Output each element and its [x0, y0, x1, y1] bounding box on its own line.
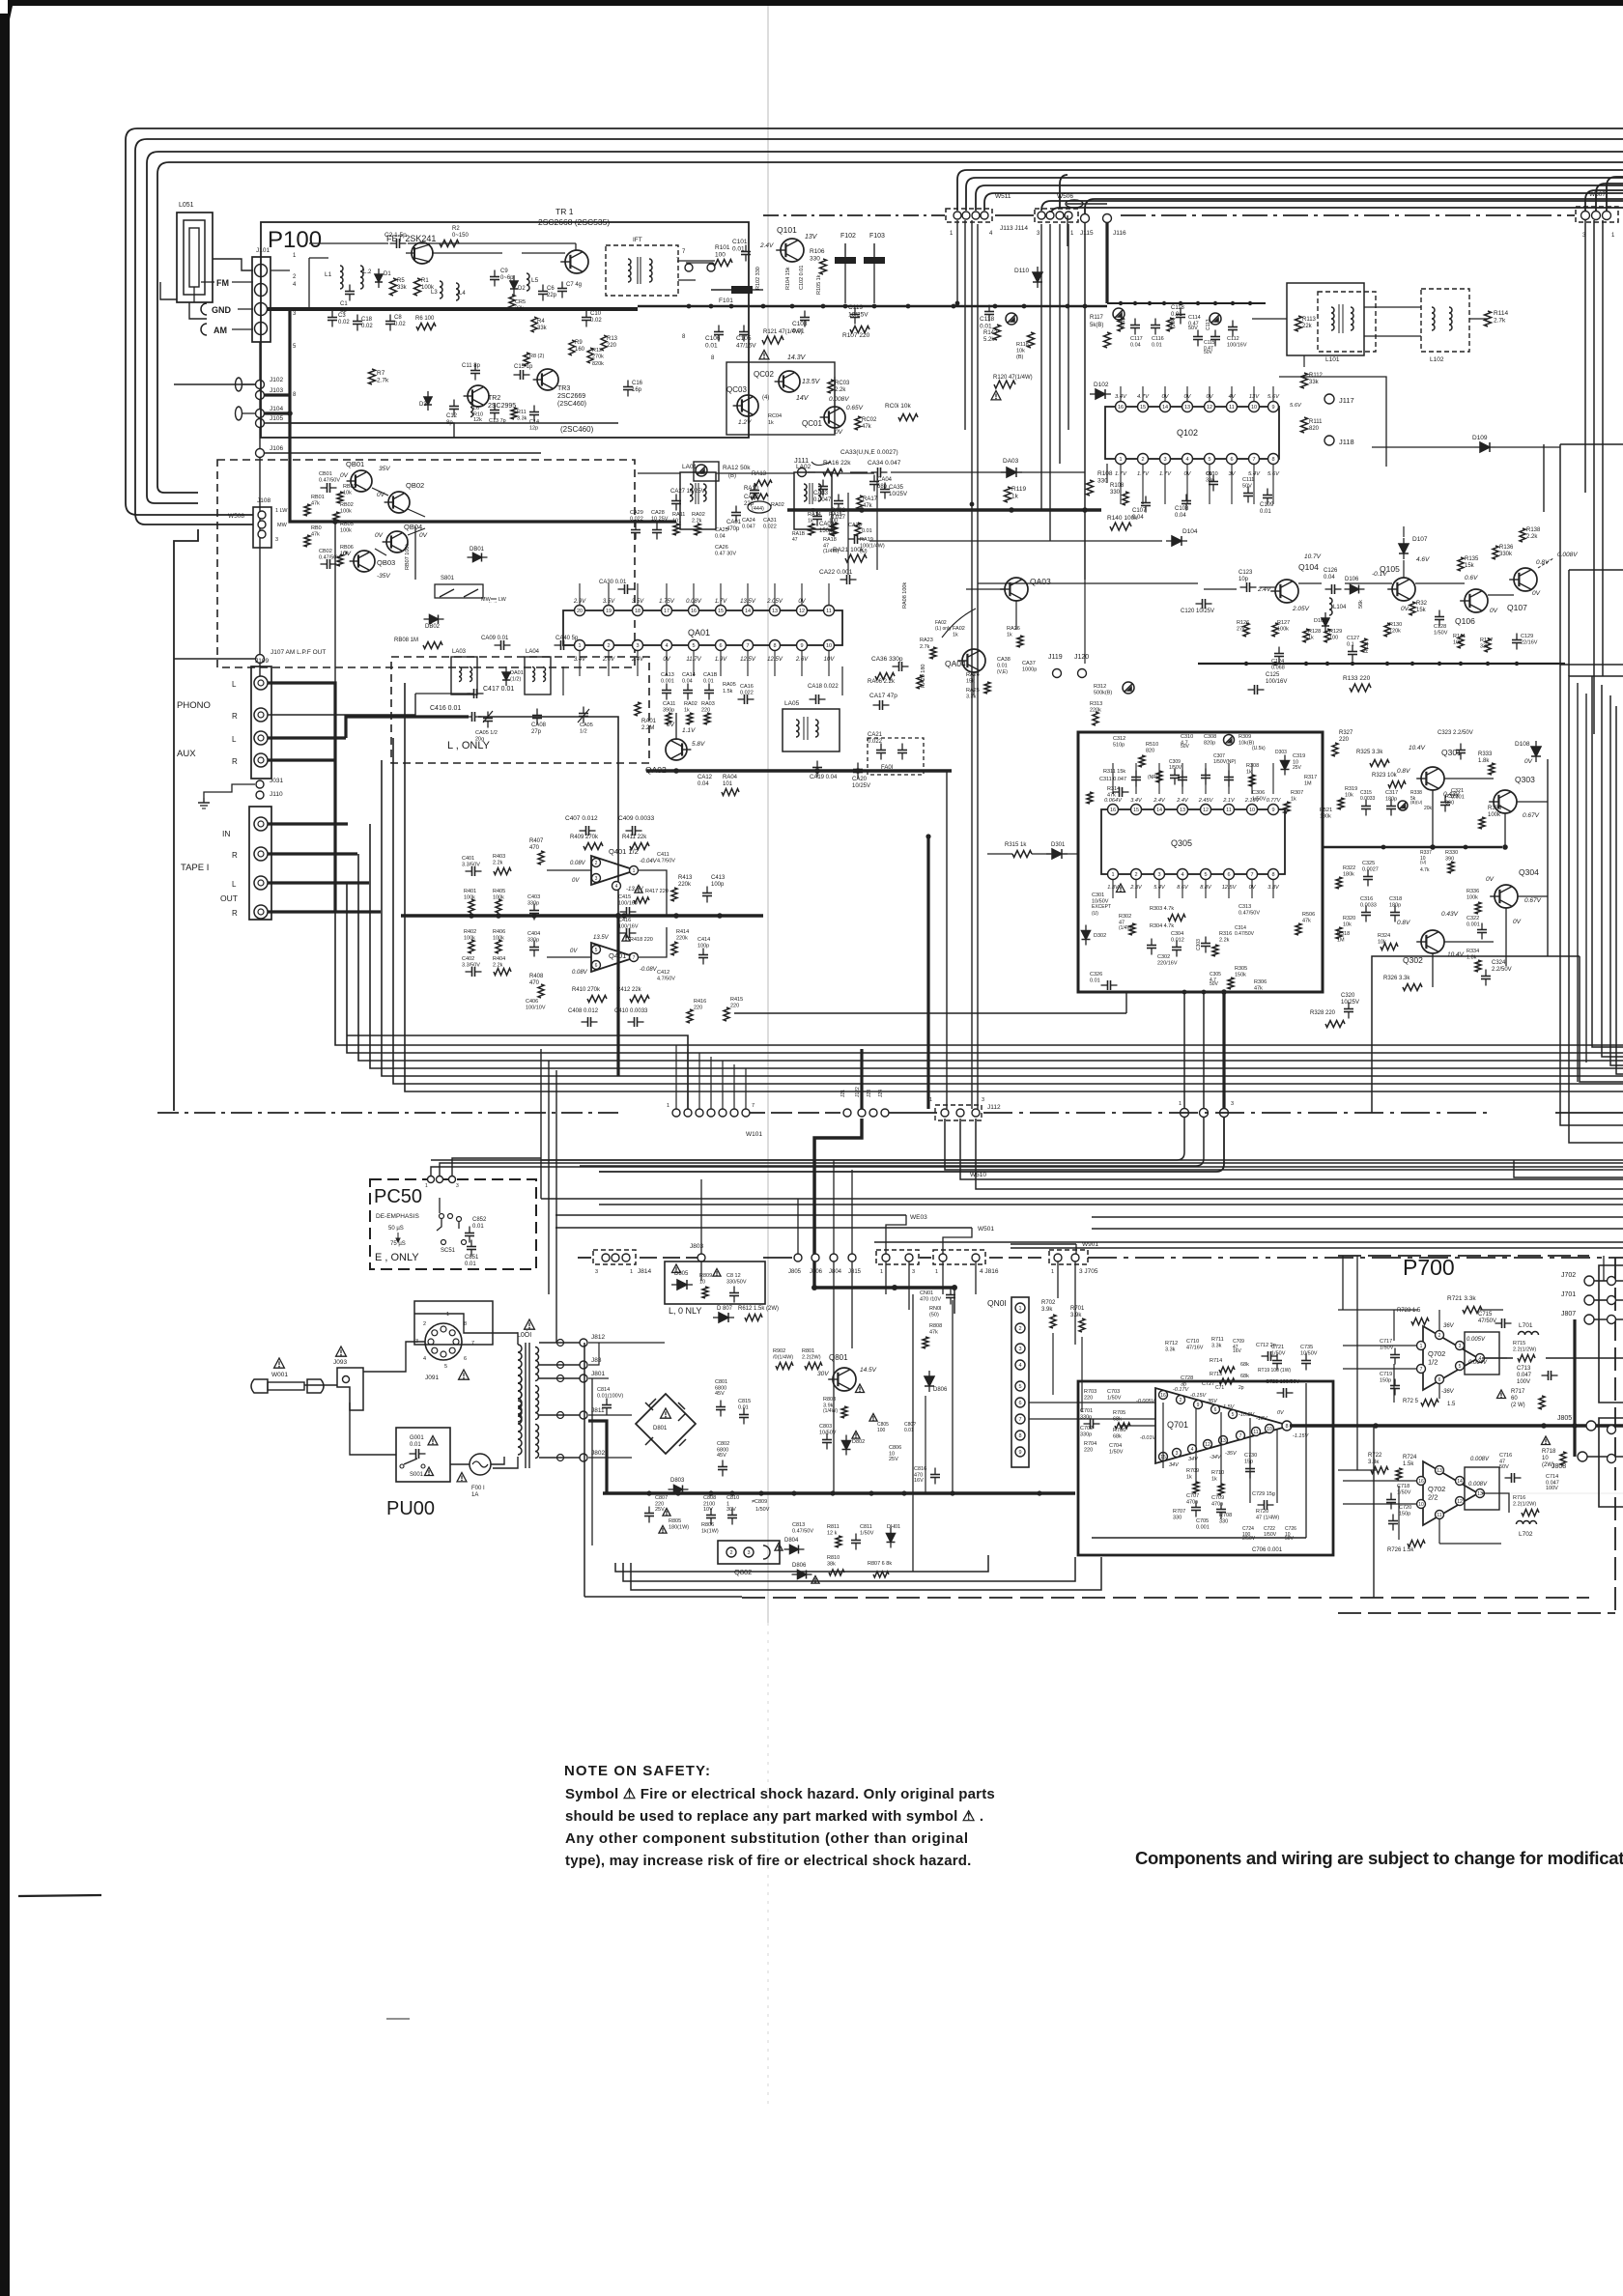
- resistor RA06 2.2k: [875, 673, 895, 680]
- svg-text:R810: R810: [827, 1555, 840, 1561]
- resistor R8: [524, 353, 529, 366]
- wire right edge drops: [1585, 190, 1623, 212]
- connector J116: [1103, 214, 1112, 223]
- svg-text:100: 100: [877, 1428, 886, 1433]
- svg-text:330: 330: [1110, 490, 1121, 496]
- svg-text:56k: 56k: [1358, 600, 1364, 609]
- svg-text:R106: R106: [810, 248, 825, 255]
- svg-text:100k: 100k: [1277, 627, 1289, 633]
- svg-text:C301: C301: [1092, 893, 1104, 898]
- capacitor row Q305 top: [1131, 777, 1141, 779]
- svg-text:QA01: QA01: [688, 628, 710, 638]
- svg-text:10.7V: 10.7V: [1304, 553, 1322, 560]
- svg-text:J104: J104: [270, 406, 283, 412]
- capacitor C18 0.02: [353, 321, 362, 323]
- op-amp Q401 1/2: [591, 856, 636, 885]
- inductor LA01: [680, 472, 716, 529]
- wire long line under dash: [431, 1159, 1623, 1161]
- dashed P700 bottom: [1338, 1612, 1615, 1614]
- svg-text:R137: R137: [1480, 638, 1493, 643]
- svg-text:Q104: Q104: [1298, 562, 1319, 572]
- diode D804: [790, 1545, 799, 1554]
- svg-text:0V: 0V: [377, 492, 385, 498]
- svg-text:SC51: SC51: [441, 1248, 456, 1254]
- svg-text:100/16V: 100/16V: [618, 901, 639, 907]
- svg-text:R121 47(1/4W): R121 47(1/4W): [763, 329, 803, 335]
- svg-text:C11 8p: C11 8p: [462, 363, 481, 369]
- svg-text:11: 11: [1437, 1513, 1441, 1518]
- block PC50 dashed box: [370, 1179, 536, 1269]
- svg-text:C416 0.01: C416 0.01: [430, 705, 461, 712]
- transistor Q106: [1465, 589, 1488, 612]
- svg-text:J119: J119: [1048, 654, 1063, 661]
- svg-text:QB01: QB01: [346, 460, 364, 468]
- svg-text:13: 13: [772, 609, 778, 614]
- svg-text:0V: 0V: [667, 722, 675, 728]
- capacitor C106 0.01: [714, 331, 724, 333]
- connector J101: [252, 257, 270, 342]
- svg-text:50V: 50V: [1181, 744, 1190, 750]
- resistor R135 15k: [1458, 557, 1464, 571]
- capacitor CA30 0.01: [624, 584, 626, 594]
- svg-text:14: 14: [1162, 405, 1168, 411]
- svg-text:C15 1p: C15 1p: [514, 364, 533, 370]
- resistor R140 100k: [1110, 523, 1131, 530]
- svg-text:47/50V: 47/50V: [1478, 1318, 1496, 1324]
- svg-text:10k: 10k: [343, 491, 352, 496]
- L ONLY box power: [665, 1261, 765, 1304]
- svg-text:R112: R112: [1309, 373, 1324, 379]
- svg-text:C2 1.5p: C2 1.5p: [384, 232, 407, 239]
- svg-text:C9: C9: [500, 269, 508, 274]
- connector QN01: [1011, 1297, 1029, 1467]
- capacitor C108 0.04: [1182, 500, 1191, 502]
- svg-text:0.01: 0.01: [997, 664, 1008, 669]
- svg-text:R324: R324: [1378, 933, 1390, 939]
- wire QB thick rail: [290, 413, 335, 522]
- svg-text:1/50V: 1/50V: [1109, 1450, 1124, 1456]
- wire tuner out rail: [638, 305, 1107, 308]
- svg-text:J23: J23: [867, 1090, 872, 1097]
- svg-text:IN: IN: [222, 829, 231, 838]
- svg-text:34V: 34V: [1169, 1462, 1180, 1468]
- svg-text:R4: R4: [537, 319, 545, 325]
- resistor R126 27k: [1243, 623, 1249, 637]
- svg-text:1: 1: [578, 643, 581, 649]
- transistor TR3: [537, 369, 558, 390]
- svg-text:3: 3: [275, 537, 278, 543]
- svg-text:R142: R142: [983, 330, 998, 336]
- svg-text:4.7V: 4.7V: [1137, 394, 1150, 400]
- svg-text:R130: R130: [1389, 622, 1402, 628]
- wire frame outer 2: [135, 139, 1623, 513]
- svg-text:3: 3: [1157, 872, 1160, 878]
- svg-text:100/10V: 100/10V: [526, 1006, 546, 1011]
- svg-text:-36V: -36V: [1441, 1389, 1455, 1395]
- svg-text:10.4V: 10.4V: [1409, 745, 1426, 751]
- svg-text:CA02: CA02: [744, 495, 759, 500]
- svg-text:RA13: RA13: [752, 471, 767, 477]
- svg-text:7: 7: [1420, 1367, 1423, 1373]
- svg-text:16: 16: [1418, 1479, 1424, 1485]
- svg-text:1k(1W): 1k(1W): [701, 1529, 719, 1535]
- svg-text:R1: R1: [421, 278, 429, 284]
- svg-text:RA26: RA26: [1007, 626, 1020, 632]
- svg-text:R706: R706: [1113, 1428, 1125, 1433]
- svg-text:J093: J093: [333, 1359, 347, 1366]
- svg-text:0.01: 0.01: [1090, 978, 1100, 984]
- resistor RA21 100k: [845, 554, 867, 562]
- svg-text:C113: C113: [1206, 319, 1211, 330]
- svg-text:1k: 1k: [1246, 770, 1252, 776]
- svg-text:820: 820: [1146, 749, 1154, 754]
- svg-text:1.5k: 1.5k: [1403, 1461, 1414, 1467]
- svg-text:RA14: RA14: [808, 512, 821, 518]
- svg-text:1.5V: 1.5V: [1223, 1404, 1236, 1410]
- svg-text:R417 220: R417 220: [645, 889, 669, 894]
- transistor Q301: [1421, 767, 1444, 790]
- wire J115 drop: [1084, 223, 1086, 580]
- svg-text:4: 4: [615, 884, 618, 890]
- svg-text:RA15: RA15: [829, 512, 842, 518]
- block Q701 box: [1078, 1381, 1333, 1555]
- svg-text:R308: R308: [1246, 763, 1259, 769]
- svg-text:3: 3: [1176, 1451, 1179, 1457]
- svg-text:0.001: 0.001: [661, 679, 674, 685]
- connector J801: [580, 1375, 587, 1382]
- op-amp Q702 2/2: [1423, 1461, 1478, 1525]
- svg-text:CA38: CA38: [997, 657, 1011, 663]
- svg-text:14.5V: 14.5V: [860, 1367, 877, 1374]
- op-amp Q401 2/2: [591, 943, 636, 972]
- svg-text:≠C809: ≠C809: [752, 1499, 767, 1505]
- svg-text:0.08V: 0.08V: [686, 599, 702, 605]
- svg-text:R711: R711: [1211, 1337, 1224, 1343]
- svg-text:220: 220: [1339, 737, 1350, 743]
- svg-text:13: 13: [1184, 405, 1190, 411]
- svg-text:C810: C810: [726, 1495, 739, 1501]
- wire left bundle drop: [540, 1049, 542, 1199]
- resistor R132 15k: [1409, 602, 1415, 615]
- svg-text:22/16V: 22/16V: [1521, 640, 1538, 646]
- svg-text:R105 1k: R105 1k: [816, 274, 822, 295]
- wire bus stair 3: [358, 854, 1623, 1061]
- connector J805 J806 J804 J815: [794, 1254, 802, 1261]
- svg-text:9: 9: [1018, 1450, 1021, 1456]
- svg-text:0.01: 0.01: [410, 1442, 421, 1448]
- svg-text:1.7V: 1.7V: [1159, 471, 1172, 477]
- svg-text:15: 15: [1140, 405, 1146, 411]
- svg-text:C713: C713: [1517, 1366, 1531, 1372]
- capacitor CA40 5p: [560, 640, 562, 650]
- svg-text:3.9k: 3.9k: [1070, 1313, 1082, 1318]
- svg-text:C304: C304: [1171, 931, 1183, 937]
- svg-text:R713: R713: [1210, 1372, 1222, 1377]
- svg-text:L.2: L.2: [363, 269, 372, 275]
- wire J8xx connector downfeeds: [700, 1261, 702, 1281]
- svg-text:(L) only: (L) only: [935, 626, 952, 632]
- wire Q401 output thick drop: [616, 916, 619, 1076]
- svg-text:15: 15: [1133, 808, 1139, 813]
- wire Q305 bottom drops to J1xx pins: [1183, 992, 1185, 1109]
- svg-text:0V: 0V: [375, 532, 384, 539]
- svg-text:330k: 330k: [1499, 552, 1513, 557]
- svg-text:0.6V: 0.6V: [1465, 575, 1478, 581]
- capacitor CA20 10/25: [853, 769, 863, 771]
- transistor Q302: [1421, 930, 1444, 953]
- svg-text:4: 4: [423, 1356, 426, 1362]
- svg-text:J812: J812: [591, 1334, 605, 1341]
- IFT transformer: [606, 245, 678, 296]
- svg-text:820p: 820p: [1204, 741, 1215, 747]
- resistor R114 2.7k: [1485, 311, 1492, 326]
- svg-text:C318: C318: [1389, 896, 1402, 902]
- svg-text:C316: C316: [1360, 896, 1373, 902]
- transistor Q303: [1494, 790, 1517, 813]
- svg-text:1: 1: [1420, 1344, 1423, 1349]
- svg-text:DA03: DA03: [1003, 458, 1019, 465]
- svg-text:J24: J24: [878, 1090, 884, 1097]
- svg-text:1.7V: 1.7V: [1115, 471, 1127, 477]
- dashed frame P700: [1338, 1255, 1589, 1257]
- wire drop J115 loop: [1060, 175, 1068, 208]
- svg-text:C317: C317: [1385, 790, 1398, 796]
- svg-text:J806: J806: [810, 1269, 823, 1275]
- svg-text:0.008V: 0.008V: [1468, 1482, 1488, 1488]
- svg-text:7: 7: [746, 643, 749, 649]
- svg-text:100p: 100p: [711, 882, 725, 888]
- svg-text:10/25V: 10/25V: [889, 492, 907, 497]
- svg-text:1: 1: [1119, 457, 1122, 463]
- svg-text:120k: 120k: [1389, 629, 1401, 635]
- capacitor C416: [471, 712, 473, 722]
- svg-text:R11: R11: [517, 410, 527, 415]
- svg-text:1/2: 1/2: [580, 729, 587, 735]
- capacitor CA05b: [579, 713, 588, 715]
- svg-text:0.01: 0.01: [465, 1261, 476, 1267]
- svg-text:14: 14: [1457, 1479, 1463, 1485]
- wire bus top F: [1050, 208, 1623, 217]
- svg-text:C814: C814: [597, 1387, 610, 1393]
- svg-text:R316: R316: [1219, 931, 1232, 937]
- svg-text:0.04: 0.04: [1324, 575, 1335, 581]
- svg-text:DE-EMPHASIS: DE-EMPHASIS: [376, 1213, 419, 1220]
- svg-text:CB02: CB02: [319, 549, 332, 554]
- svg-text:R506: R506: [1302, 912, 1315, 918]
- svg-text:4: 4: [989, 231, 993, 237]
- svg-text:L104: L104: [1333, 605, 1347, 610]
- svg-text:7: 7: [471, 1341, 474, 1346]
- svg-text:D806: D806: [933, 1387, 948, 1393]
- wire bus top C: [976, 185, 1623, 211]
- svg-text:0.02: 0.02: [394, 322, 406, 327]
- svg-text:C727: C727: [1202, 1381, 1214, 1387]
- svg-text:0.67V: 0.67V: [1524, 897, 1542, 904]
- svg-text:D102: D102: [1094, 382, 1109, 388]
- wire aux feed: [346, 717, 469, 738]
- svg-text:0V: 0V: [1183, 471, 1191, 477]
- svg-text:10/25V: 10/25V: [852, 783, 870, 789]
- svg-text:C706 0.001: C706 0.001: [1252, 1547, 1283, 1553]
- svg-text:0.08V: 0.08V: [570, 861, 586, 866]
- svg-text:R141: R141: [1453, 634, 1466, 639]
- svg-text:10: 10: [826, 643, 832, 649]
- svg-text:1/50V: 1/50V: [755, 1507, 770, 1513]
- svg-text:5: 5: [1459, 1364, 1462, 1370]
- connector J816: [933, 1250, 985, 1264]
- svg-text:R107 220: R107 220: [842, 332, 870, 339]
- svg-text:0.0047: 0.0047: [813, 497, 832, 503]
- svg-text:CA05: CA05: [580, 723, 593, 728]
- svg-text:4V: 4V: [1228, 394, 1236, 400]
- svg-text:2/2: 2/2: [1428, 1493, 1438, 1502]
- capacitor CA17 47p: [879, 700, 881, 710]
- svg-text:R133 220: R133 220: [1343, 675, 1371, 682]
- svg-text:R413: R413: [678, 875, 693, 881]
- svg-text:390: 390: [1445, 857, 1454, 863]
- svg-text:14: 14: [1156, 808, 1162, 813]
- svg-text:5: 5: [1232, 1412, 1235, 1418]
- svg-text:D3: D3: [419, 402, 427, 408]
- svg-text:(2 W): (2 W): [1511, 1403, 1525, 1408]
- diode D2: [510, 281, 518, 289]
- svg-text:5.6V: 5.6V: [1267, 394, 1280, 400]
- svg-text:Any other component substit: Any other component substitution (other …: [565, 1830, 969, 1847]
- svg-text:J122: J122: [855, 1087, 861, 1097]
- svg-text:R113: R113: [1302, 317, 1317, 323]
- svg-text:C18: C18: [361, 317, 373, 323]
- resistor R718 10 2W: [1542, 1436, 1551, 1445]
- svg-text:0V: 0V: [798, 599, 806, 605]
- svg-text:(4): (4): [762, 395, 769, 401]
- svg-text:13: 13: [1180, 808, 1185, 813]
- svg-text:IFT: IFT: [633, 237, 642, 243]
- svg-text:2.2(1/2W): 2.2(1/2W): [1513, 1502, 1536, 1508]
- svg-text:R803: R803: [823, 1397, 836, 1403]
- svg-text:4: 4: [1191, 1447, 1194, 1453]
- svg-text:R510: R510: [1146, 742, 1158, 748]
- svg-text:0.01: 0.01: [862, 528, 872, 534]
- svg-text:8: 8: [1271, 457, 1274, 463]
- svg-text:QN0I: QN0I: [987, 1298, 1007, 1308]
- svg-text:C714: C714: [1546, 1474, 1558, 1480]
- svg-text:D105: D105: [1314, 618, 1326, 624]
- resistor R129 100: [1324, 629, 1330, 642]
- wire Q702a output: [1485, 1357, 1513, 1359]
- svg-text:CA24: CA24: [742, 518, 755, 524]
- svg-text:3: 3: [1018, 1346, 1021, 1352]
- svg-text:R702: R702: [1041, 1300, 1056, 1306]
- svg-text:J805: J805: [1557, 1415, 1572, 1422]
- svg-text:R612 1.5k (2W): R612 1.5k (2W): [738, 1306, 779, 1312]
- transistor Q801: [833, 1368, 856, 1391]
- svg-text:W001: W001: [271, 1372, 288, 1378]
- wire frame outer 4: [157, 162, 1623, 486]
- svg-text:RB08 1M: RB08 1M: [394, 638, 418, 643]
- capacitor C7 4p: [557, 288, 567, 290]
- capacitor C1 6p: [345, 291, 355, 293]
- transistor Q802 box: [718, 1541, 780, 1564]
- svg-text:R807 6 8k: R807 6 8k: [868, 1561, 892, 1567]
- svg-text:CA28: CA28: [651, 510, 665, 516]
- svg-text:33k: 33k: [515, 306, 524, 312]
- svg-text:C118: C118: [980, 316, 994, 323]
- svg-text:5.8V: 5.8V: [692, 741, 705, 748]
- svg-text:-0.17V: -0.17V: [1173, 1387, 1190, 1393]
- svg-text:R335: R335: [1488, 806, 1502, 811]
- svg-text:8: 8: [711, 355, 715, 361]
- svg-text:R326 3.3k: R326 3.3k: [1383, 976, 1410, 981]
- svg-text:R318: R318: [1337, 931, 1350, 937]
- diode DA03: [1007, 468, 1016, 477]
- transistor Q107: [1514, 568, 1537, 591]
- svg-text:11: 11: [1253, 1430, 1258, 1435]
- svg-text:Q305: Q305: [1171, 838, 1192, 848]
- svg-text:C7 4g: C7 4g: [566, 282, 582, 288]
- svg-text:47k: 47k: [862, 424, 872, 430]
- svg-text:CA13: CA13: [661, 672, 674, 678]
- capacitor C11 8p: [470, 370, 480, 372]
- svg-text:C401: C401: [462, 856, 474, 862]
- svg-text:R715: R715: [1513, 1341, 1525, 1346]
- svg-text:100k: 100k: [1466, 895, 1478, 901]
- wire Q305 right thick vertical: [1322, 732, 1324, 992]
- svg-text:8: 8: [1018, 1433, 1021, 1439]
- svg-text:68k: 68k: [1113, 1434, 1122, 1440]
- svg-text:J110: J110: [270, 791, 283, 798]
- diode DH01: [887, 1534, 896, 1543]
- svg-text:OUT: OUT: [220, 893, 238, 903]
- svg-text:25V: 25V: [1293, 765, 1302, 771]
- svg-text:(V,E): (V,E): [997, 669, 1008, 675]
- svg-text:R418 220: R418 220: [630, 937, 653, 943]
- diode D806: [925, 1376, 934, 1386]
- svg-text:W510: W510: [970, 1172, 986, 1178]
- svg-text:2/50V: 2/50V: [1242, 1536, 1256, 1542]
- svg-text:J83: J83: [591, 1357, 602, 1364]
- svg-text:RB01: RB01: [311, 495, 325, 500]
- svg-text:1k: 1k: [1011, 494, 1019, 500]
- capacitor C15 1p: [520, 370, 522, 380]
- svg-text:16V: 16V: [914, 1478, 924, 1484]
- svg-text:R333: R333: [1478, 751, 1493, 757]
- resistor R2: [440, 241, 459, 247]
- svg-text:1: 1: [446, 1312, 449, 1318]
- svg-text:0.04: 0.04: [1130, 343, 1141, 349]
- svg-text:TR 1: TR 1: [555, 207, 574, 216]
- svg-text:L1: L1: [325, 271, 332, 278]
- svg-text:8: 8: [1285, 1424, 1288, 1430]
- wire L101 L102 link: [1364, 306, 1421, 308]
- svg-text:L4: L4: [459, 291, 466, 297]
- svg-text:1 LW: 1 LW: [275, 508, 288, 514]
- resistor RC03 2.2k: [828, 380, 834, 393]
- capacitor C129 22/16V: [1512, 639, 1522, 641]
- wire right vertical bundle: [1584, 220, 1586, 493]
- svg-text:C409 0.0033: C409 0.0033: [618, 815, 655, 822]
- svg-text:47/16V: 47/16V: [1186, 1346, 1204, 1351]
- svg-text:TR3: TR3: [557, 385, 570, 392]
- capacitor C10 0.02: [582, 317, 591, 319]
- connector boxes right page edge: [1599, 1265, 1623, 1403]
- svg-text:RA08 100k: RA08 100k: [902, 582, 908, 609]
- resistor R6 100: [416, 324, 436, 330]
- svg-text:J804: J804: [829, 1269, 842, 1275]
- svg-text:R32: R32: [1416, 601, 1428, 607]
- svg-text:12: 12: [1205, 1442, 1210, 1448]
- svg-text:10: 10: [1418, 1502, 1424, 1508]
- capacitor CA03 150p: [812, 516, 822, 518]
